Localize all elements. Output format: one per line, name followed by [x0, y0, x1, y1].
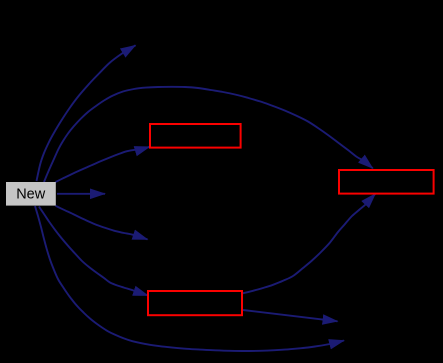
wire edge New to right box (top entry) [44, 87, 373, 182]
svg-text:New: New [16, 187, 46, 203]
node bottom red box [148, 291, 242, 315]
node New [6, 182, 56, 206]
node right red box [339, 170, 434, 194]
node middle red box [150, 124, 241, 148]
wire edge bottom box to right node [243, 310, 338, 321]
wire edge bottom box to right box [243, 194, 376, 294]
wire edge New to middle box [56, 147, 150, 182]
wire edge New to right node [57, 193, 105, 195]
wire edge New to lower node [56, 206, 148, 240]
wire edge New to bottom-right node [35, 206, 344, 351]
wire edge New to top node [37, 45, 136, 181]
wire edge New to bottom box [39, 207, 148, 296]
